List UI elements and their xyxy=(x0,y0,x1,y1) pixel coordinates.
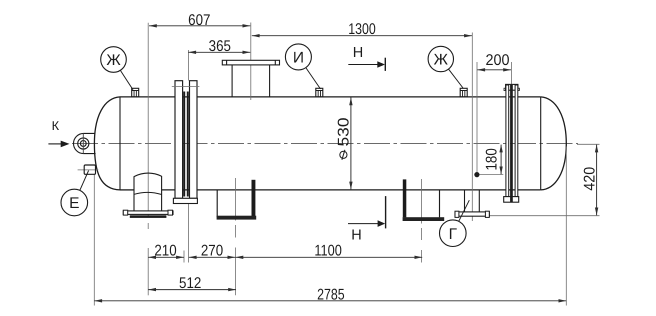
svg-text:200: 200 xyxy=(486,52,510,69)
svg-text:К: К xyxy=(52,118,60,133)
svg-text:Ж: Ж xyxy=(434,52,449,69)
svg-text:И: И xyxy=(293,50,304,67)
svg-text:512: 512 xyxy=(179,275,201,292)
svg-text:420: 420 xyxy=(582,166,599,190)
svg-text:607: 607 xyxy=(188,12,210,29)
svg-text:Н: Н xyxy=(351,228,361,244)
svg-text:Е: Е xyxy=(69,195,79,212)
svg-text:530: 530 xyxy=(336,117,353,146)
svg-text:1100: 1100 xyxy=(314,243,342,260)
svg-text:365: 365 xyxy=(209,38,231,55)
svg-text:Н: Н xyxy=(353,45,363,61)
svg-text:270: 270 xyxy=(201,243,224,260)
svg-text:180: 180 xyxy=(484,148,501,171)
svg-text:2785: 2785 xyxy=(317,287,345,304)
svg-text:Ж: Ж xyxy=(106,52,121,69)
svg-text:210: 210 xyxy=(154,243,177,260)
svg-text:1300: 1300 xyxy=(348,21,376,38)
svg-text:Г: Г xyxy=(449,226,458,243)
